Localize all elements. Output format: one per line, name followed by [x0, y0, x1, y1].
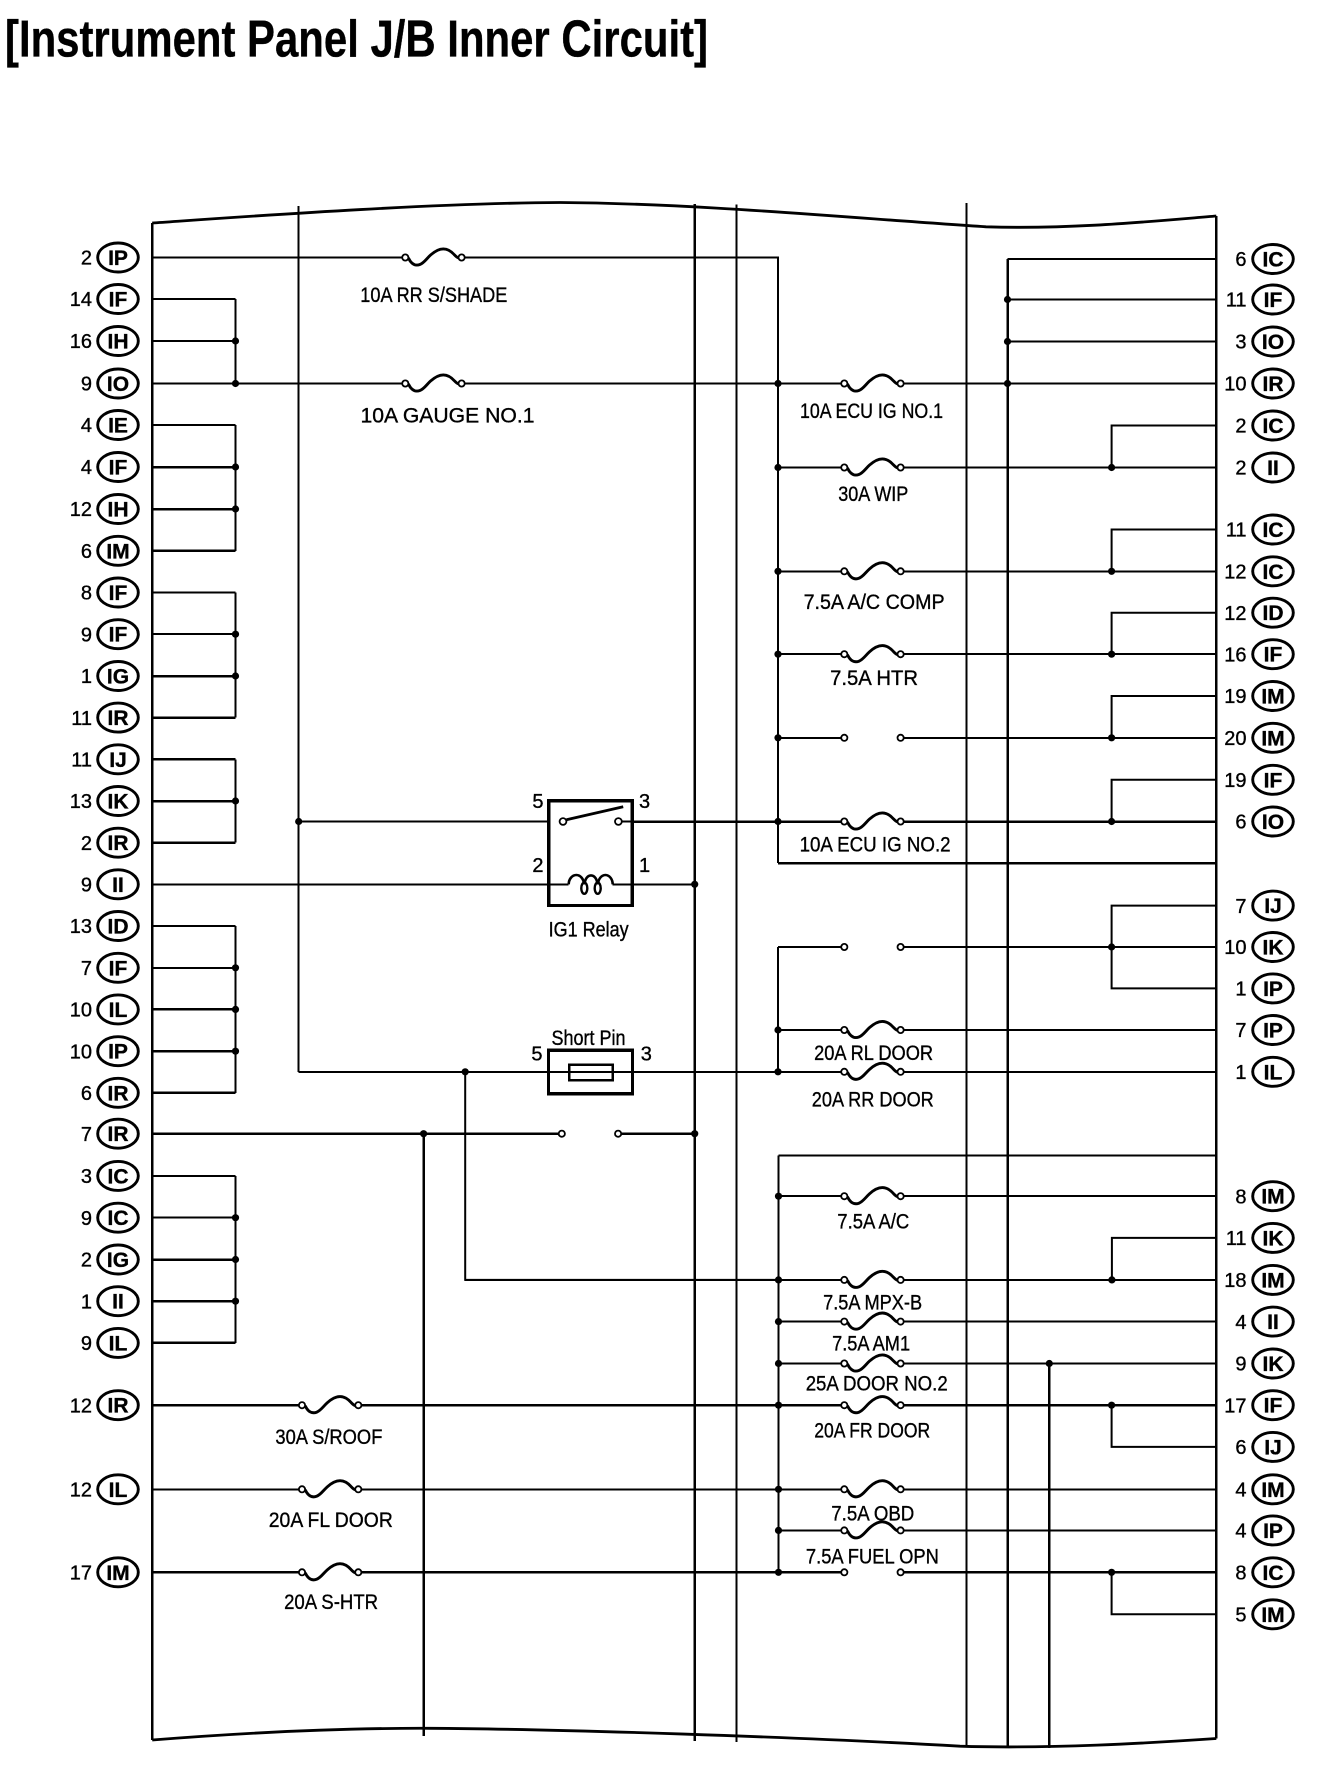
relay IG1 pin number 3 — [639, 791, 650, 813]
spare fuse slot on 10 IK row — [841, 944, 904, 950]
wire: bracket pin 19 IM — [1112, 696, 1217, 738]
svg-text:20: 20 — [1224, 728, 1246, 750]
svg-text:12: 12 — [1224, 562, 1246, 584]
svg-text:IM: IM — [106, 1562, 129, 1585]
svg-text:12: 12 — [1224, 603, 1246, 625]
bus wire V7 (x=423.6, 7 IR row to bottom border) — [420, 1130, 427, 1736]
svg-text:4: 4 — [1235, 1480, 1246, 1502]
svg-text:7: 7 — [1235, 1020, 1246, 1042]
wire: pin 10 IL stub to group bracket — [152, 1008, 235, 1011]
svg-text:ID: ID — [108, 916, 129, 939]
svg-text:19: 19 — [1224, 770, 1246, 792]
svg-text:1: 1 — [1235, 979, 1246, 1001]
svg-text:2: 2 — [81, 248, 92, 270]
svg-text:IF: IF — [109, 582, 128, 605]
connector pin 3 IO (right) — [1235, 327, 1293, 356]
svg-text:IF: IF — [1264, 1395, 1283, 1418]
fuse 10A ECU IG NO.2 — [800, 813, 951, 856]
svg-text:IP: IP — [108, 247, 128, 270]
svg-text:9: 9 — [1235, 1354, 1246, 1376]
fuse 7.5A OBD — [831, 1481, 914, 1526]
svg-text:7.5A A/C COMP: 7.5A A/C COMP — [804, 591, 945, 614]
connector pin 4 II (right) — [1235, 1307, 1293, 1336]
svg-text:IM: IM — [1261, 1186, 1284, 1209]
svg-text:13: 13 — [70, 916, 92, 938]
svg-text:IK: IK — [1263, 1227, 1284, 1250]
svg-text:7.5A FUEL OPN: 7.5A FUEL OPN — [806, 1546, 939, 1569]
wire: pin 2 IP row to 10A RR S/SHADE fuse and down-corner at x=778 — [152, 257, 779, 259]
wire: pin 3 IC stub to group bracket — [152, 1175, 235, 1177]
svg-text:7.5A MPX-B: 7.5A MPX-B — [823, 1292, 922, 1315]
wire: group bracket 14 IF / 16 IH / 9 IO — [232, 299, 239, 387]
svg-text:6: 6 — [81, 1083, 92, 1105]
junction box top border (wavy) — [152, 203, 1216, 228]
wire: bracket pin 5 IM from 8 IC row — [1112, 1572, 1217, 1614]
svg-text:10A GAUGE NO.1: 10A GAUGE NO.1 — [361, 404, 535, 427]
bus wire V6 (x=1049.3, 25A DOOR NO.2 row to bottom border) — [1046, 1360, 1053, 1748]
svg-text:20A FR DOOR: 20A FR DOOR — [814, 1420, 930, 1443]
connector pin 1 IP (right) — [1235, 974, 1293, 1003]
wire: group bracket 11 IJ / 13 IK / 2 IR — [232, 759, 239, 842]
svg-text:8: 8 — [1235, 1186, 1246, 1208]
connector pin 7 IP (right) — [1235, 1016, 1293, 1045]
wire: bracket pin 7 IJ / pin 1 IP — [1112, 906, 1217, 989]
short pin pin number 3 — [641, 1044, 652, 1066]
bus wire V3 (x=736.3, top border to bottom border) — [735, 205, 737, 1743]
connector pin 5 IM (right) — [1235, 1600, 1293, 1629]
svg-text:IF: IF — [1264, 289, 1283, 312]
fuse 7.5A HTR — [830, 646, 918, 690]
svg-text:IP: IP — [1263, 1520, 1283, 1543]
svg-text:IC: IC — [1263, 519, 1284, 542]
svg-text:12: 12 — [70, 1480, 92, 1502]
svg-text:IP: IP — [108, 1041, 128, 1064]
wire: pin 8 IF stub to group bracket — [152, 592, 235, 594]
svg-text:10: 10 — [70, 1041, 92, 1063]
wire: pin 2 IR stub to group bracket — [152, 841, 235, 844]
connector pin 8 IF (left) — [81, 578, 138, 607]
short pin box — [549, 1050, 633, 1094]
svg-text:IH: IH — [108, 331, 129, 354]
svg-text:IP: IP — [1263, 1020, 1283, 1043]
spare fuse slot on 7 IR row — [559, 1131, 622, 1137]
wire: pin 9 IF stub to group bracket — [152, 633, 235, 635]
svg-text:II: II — [1267, 1311, 1279, 1334]
connector pin 1 IG (left) — [81, 662, 138, 691]
fuse 20A FR DOOR — [814, 1397, 930, 1443]
connector pin 1 IL (right) — [1235, 1057, 1293, 1086]
relay IG1 box — [549, 801, 632, 906]
connector pin 6 IJ (right) — [1235, 1432, 1293, 1461]
wire: group bracket 3 IC / 9 IC / 2 IG / 1 II / 9 IL — [232, 1176, 239, 1343]
svg-text:IC: IC — [1263, 415, 1284, 438]
wire: relay feed drop to right border at y=863 — [778, 862, 1216, 865]
svg-text:7: 7 — [1235, 896, 1246, 918]
svg-text:8: 8 — [1235, 1563, 1246, 1585]
svg-text:5: 5 — [1235, 1605, 1246, 1627]
svg-text:5: 5 — [531, 1044, 542, 1066]
svg-text:9: 9 — [81, 624, 92, 646]
svg-text:IO: IO — [1262, 811, 1284, 834]
svg-text:IJ: IJ — [1264, 895, 1282, 918]
connector pin 11 IC (right) — [1226, 515, 1294, 544]
svg-text:ID: ID — [1263, 602, 1284, 625]
wire: group bracket 13 ID / 7 IF / 10 IL / 10 IP / 6 IR — [232, 926, 239, 1093]
svg-text:IC: IC — [1263, 1562, 1284, 1585]
svg-text:6: 6 — [81, 541, 92, 563]
svg-text:IR: IR — [108, 707, 129, 730]
wire: bracket pin 11 IC — [1112, 530, 1217, 572]
svg-text:IJ: IJ — [109, 749, 127, 772]
svg-text:2: 2 — [81, 1250, 92, 1272]
svg-text:6: 6 — [1235, 1437, 1246, 1459]
svg-text:12: 12 — [70, 499, 92, 521]
svg-text:IK: IK — [108, 791, 129, 814]
connector pin 8 IC (right) — [1235, 1558, 1293, 1587]
svg-text:30A S/ROOF: 30A S/ROOF — [275, 1426, 382, 1449]
wire: pin 11 IF row from bus V5 — [1008, 299, 1217, 301]
wire: 7.5A FUEL OPN row from bus to pin 4 IP — [779, 1529, 1217, 1531]
connector pin 2 II (right) — [1235, 453, 1293, 482]
connector pin 12 IC (right) — [1224, 557, 1293, 586]
connector pin 4 IP (right) — [1235, 1516, 1293, 1545]
svg-text:IP: IP — [1263, 978, 1283, 1001]
svg-text:[Instrument Panel J/B Inner Ci: [Instrument Panel J/B Inner Circuit] — [5, 11, 708, 69]
svg-text:6: 6 — [1235, 812, 1246, 834]
svg-text:1: 1 — [81, 666, 92, 688]
svg-text:11: 11 — [1226, 520, 1247, 542]
wire: pin 6 IM stub to group bracket — [152, 550, 235, 553]
svg-text:25A DOOR NO.2: 25A DOOR NO.2 — [806, 1372, 948, 1395]
svg-text:IM: IM — [1261, 1269, 1284, 1292]
svg-text:IR: IR — [108, 1082, 129, 1105]
connector pin 2 IG (left) — [81, 1245, 138, 1274]
spare fuse slot on 8 IC row — [841, 1569, 904, 1575]
svg-text:IK: IK — [1263, 1353, 1284, 1376]
connector pin 19 IM (right) — [1224, 682, 1293, 711]
svg-text:16: 16 — [1224, 644, 1246, 666]
connector pin 12 IH (left) — [70, 495, 139, 524]
wire: pin 13 ID stub to group bracket — [152, 925, 235, 927]
svg-text:IM: IM — [1261, 1479, 1284, 1502]
svg-text:13: 13 — [70, 791, 92, 813]
fuse 10A RR S/SHADE — [360, 249, 507, 307]
svg-text:20A RL DOOR: 20A RL DOOR — [814, 1042, 933, 1065]
svg-text:IL: IL — [109, 999, 128, 1022]
wire: 20A RL DOOR row from bus to pin 7 IP — [778, 1029, 1216, 1031]
fuse 30A WIP — [838, 459, 908, 506]
wire: relay coil pin 1 to bus V2 — [632, 883, 695, 885]
relay IG1 label — [549, 919, 629, 942]
svg-text:4: 4 — [1235, 1312, 1246, 1334]
connector pin 11 IR (left) — [71, 703, 138, 732]
wire: relay output row 10A ECU IG NO.2 to pin 6 IO with bracket to pin 19 IF — [299, 818, 1217, 825]
wire: spare slot row (7 IJ / 10 IK / 1 IP group) — [778, 943, 1216, 950]
svg-text:11: 11 — [1226, 1228, 1247, 1250]
wire: bracket pin 11 IK — [1112, 1238, 1216, 1280]
svg-text:IC: IC — [108, 1207, 129, 1230]
svg-text:Short Pin: Short Pin — [552, 1027, 626, 1050]
connector pin 18 IM (right) — [1224, 1265, 1293, 1294]
wire: group bracket 8 IF / 9 IF / 1 IG / 11 IR — [232, 593, 239, 718]
wire: pin 17 IM row through 20A S-HTR fuse and spare slot to pin 8 IC (right) — [152, 1569, 1216, 1576]
connector pin 6 IC (right) — [1235, 245, 1293, 274]
junction box bottom border (wavy) — [152, 1728, 1216, 1747]
svg-text:IG: IG — [107, 666, 129, 689]
fuse 10A GAUGE NO.1 — [361, 375, 535, 427]
svg-text:2: 2 — [81, 833, 92, 855]
svg-text:IL: IL — [1264, 1061, 1283, 1084]
connector pin 1 II (left) — [81, 1287, 138, 1316]
svg-text:11: 11 — [1226, 290, 1247, 312]
wire: pin 2 IG stub to group bracket — [152, 1258, 235, 1261]
connector pin 11 IK (right) — [1226, 1223, 1294, 1252]
spare fuse slot on 20 IM row — [841, 735, 904, 741]
connector pin 4 IF (left) — [81, 453, 138, 482]
svg-text:3: 3 — [639, 791, 650, 813]
svg-text:7.5A HTR: 7.5A HTR — [830, 667, 918, 690]
relay IG1 pin number 1 — [639, 855, 650, 877]
wire: spare slot row from bus to pin 20 IM with bracket to pin 19 IM — [778, 734, 1216, 741]
svg-text:IK: IK — [1263, 937, 1284, 960]
svg-text:7.5A OBD: 7.5A OBD — [831, 1503, 914, 1526]
svg-text:IG1 Relay: IG1 Relay — [549, 919, 629, 942]
connector pin 4 IE (left) — [81, 411, 138, 440]
fuse 20A RR DOOR — [812, 1063, 934, 1111]
fuse 20A FL DOOR — [269, 1481, 393, 1532]
bus wire V8b (x=778, spare-fuse row to 20A RR DOOR row) — [774, 947, 781, 1075]
svg-text:IC: IC — [108, 1165, 129, 1188]
connector pin 6 IM (left) — [81, 536, 138, 565]
wire: pin 9 IC stub to group bracket — [152, 1217, 235, 1219]
wire: 7.5A A/C COMP row from bus to pin 12 IC with bracket to pin 11 IC — [778, 568, 1216, 575]
junction box right border — [1215, 216, 1218, 1739]
wire: pin 4 IF stub to group bracket — [152, 466, 235, 469]
fuse 7.5A A/C COMP — [804, 563, 945, 614]
svg-text:IF: IF — [109, 624, 128, 647]
wire: pin 3 IO row from bus V5 — [1008, 341, 1217, 343]
svg-text:7.5A A/C: 7.5A A/C — [837, 1210, 909, 1233]
relay IG1 pin number 5 — [532, 791, 543, 813]
fuse 7.5A AM1 — [832, 1313, 910, 1355]
wire: group bracket 4 IE / 4 IF / 12 IH / 6 IM — [232, 425, 239, 551]
svg-text:3: 3 — [641, 1044, 652, 1066]
wire: pin 12 IR row through 30A S/ROOF and 20A FR DOOR fuses to pin 17 IF (right) — [152, 1402, 1216, 1409]
svg-text:1: 1 — [639, 855, 650, 877]
connector pin 11 IF (right) — [1226, 285, 1294, 314]
relay IG1 coil (pins 2-1) — [549, 875, 632, 894]
bus wire V2 (x=694.7, top border to bottom border) — [691, 204, 698, 1741]
connector pin 12 ID (right) — [1224, 598, 1293, 627]
connector pin 2 IR (left) — [81, 828, 138, 857]
svg-text:IR: IR — [1263, 373, 1284, 396]
svg-text:10: 10 — [1224, 374, 1246, 396]
wire: lower feed bus corner row to right border at y=1155.3 — [779, 1154, 1217, 1156]
svg-text:5: 5 — [532, 791, 543, 813]
connector pin 8 IM (right) — [1235, 1182, 1293, 1211]
fuse 25A DOOR NO.2 — [806, 1355, 948, 1395]
wire: 25A DOOR NO.2 row from bus to pin 9 IK — [779, 1363, 1217, 1365]
svg-text:19: 19 — [1224, 686, 1246, 708]
svg-text:IM: IM — [1261, 727, 1284, 750]
svg-text:II: II — [112, 1291, 124, 1314]
bus wire V8a (x=778, feed bus upper segment) — [774, 258, 781, 864]
svg-text:16: 16 — [70, 331, 92, 353]
fuse 7.5A MPX-B — [823, 1271, 922, 1314]
svg-text:7.5A AM1: 7.5A AM1 — [832, 1332, 910, 1355]
relay IG1 switch contacts (pins 5-3) — [560, 807, 633, 825]
svg-text:10: 10 — [70, 1000, 92, 1022]
svg-text:IO: IO — [1262, 331, 1284, 354]
connector pin 9 IF (left) — [81, 620, 138, 649]
relay IG1 pin number 2 — [532, 855, 543, 877]
svg-text:7: 7 — [81, 1124, 92, 1146]
bus wire V9 (x=465.2, Short Pin row down to 7.5A MPX-B row) — [462, 1068, 779, 1280]
svg-text:IJ: IJ — [1264, 1436, 1282, 1459]
svg-text:7: 7 — [81, 958, 92, 980]
connector pin 4 IM (right) — [1235, 1475, 1293, 1504]
svg-text:3: 3 — [81, 1166, 92, 1188]
wire: Short Pin row from bus V1 corner through 20A RR DOOR fuse to pin 1 IL — [299, 1071, 1217, 1073]
connector pin 6 IR (left) — [81, 1078, 138, 1107]
connector pin 17 IM (left) — [70, 1558, 139, 1587]
connector pin 9 IL (left) — [81, 1328, 138, 1357]
junction box left border — [151, 223, 154, 1740]
wire: pin 6 IC row from bus V5 corner — [1008, 258, 1217, 260]
svg-text:IF: IF — [109, 957, 128, 980]
svg-text:IM: IM — [1261, 686, 1284, 709]
wire: pin 11 IJ stub to group bracket — [152, 758, 235, 761]
svg-text:6: 6 — [1235, 249, 1246, 271]
svg-text:20A FL DOOR: 20A FL DOOR — [269, 1509, 393, 1532]
fuse 30A S/ROOF — [275, 1397, 382, 1449]
wire: pin 9 IL stub to group bracket — [152, 1342, 235, 1345]
svg-text:9: 9 — [81, 875, 92, 897]
wire: bracket pin 2 IC — [1112, 426, 1217, 468]
connector pin 19 IF (right) — [1224, 765, 1293, 794]
svg-text:IM: IM — [106, 540, 129, 563]
svg-text:18: 18 — [1224, 1270, 1246, 1292]
wire: pin 7 IF stub to group bracket — [152, 967, 235, 969]
svg-text:IH: IH — [108, 499, 129, 522]
wire: bracket pin 19 IF — [1112, 780, 1217, 822]
wire: pin 9 IO row through 10A GAUGE NO.1 fuse to pin 10 IR (right) — [152, 383, 1216, 385]
connector pin 6 IO (right) — [1235, 807, 1293, 836]
svg-text:9: 9 — [81, 1208, 92, 1230]
connector pin 12 IL (left) — [70, 1475, 139, 1504]
svg-text:IO: IO — [107, 373, 129, 396]
svg-text:9: 9 — [81, 374, 92, 396]
svg-text:IC: IC — [1263, 249, 1284, 272]
svg-text:30A WIP: 30A WIP — [838, 483, 908, 506]
connector pin 12 IR (left) — [70, 1391, 139, 1420]
connector pin 13 ID (left) — [70, 912, 139, 941]
wire: pin 1 IG stub to group bracket — [152, 675, 235, 678]
connector pin 9 IC (left) — [81, 1203, 138, 1232]
svg-text:II: II — [112, 874, 124, 897]
svg-text:4: 4 — [81, 415, 92, 437]
bus wire V1 (x=298.7, top border to Short Pin row) — [295, 206, 302, 1072]
connector pin 16 IH (left) — [70, 327, 139, 356]
svg-text:2: 2 — [1235, 458, 1246, 480]
svg-text:10: 10 — [1224, 937, 1246, 959]
connector pin 7 IJ (right) — [1235, 891, 1293, 920]
svg-text:10A ECU IG NO.2: 10A ECU IG NO.2 — [800, 833, 951, 856]
connector pin 3 IC (left) — [81, 1161, 138, 1190]
svg-text:3: 3 — [1235, 332, 1246, 354]
wire: bracket pin 12 ID — [1112, 613, 1217, 655]
connector pin 2 IP (left) — [81, 243, 138, 272]
svg-text:IR: IR — [108, 1123, 129, 1146]
connector pin 7 IF (left) — [81, 953, 138, 982]
svg-text:IL: IL — [109, 1332, 128, 1355]
svg-text:4: 4 — [81, 457, 92, 479]
connector pin 9 II (left) — [81, 870, 138, 899]
wire: 30A WIP row from bus to pin 2 II with bracket to pin 2 IC — [778, 464, 1216, 471]
svg-text:IR: IR — [108, 1395, 129, 1418]
fuse 20A S-HTR — [284, 1564, 378, 1614]
connector pin 10 IP (left) — [70, 1037, 139, 1066]
svg-text:IM: IM — [1261, 1604, 1284, 1627]
connector pin 20 IM (right) — [1224, 723, 1293, 752]
bus wire V4 (x=966.3, top border to bottom border) — [965, 203, 967, 1746]
wire: pin 12 IL row through 20A FL DOOR and 7.5A OBD fuses to pin 4 IM (right) — [152, 1488, 1216, 1490]
connector pin 14 IF (left) — [70, 285, 139, 314]
wire: pin 7 IR row with spare fuse slot to bus V2 — [152, 1132, 695, 1135]
fuse 10A ECU IG NO.1 — [800, 375, 943, 423]
svg-text:11: 11 — [71, 750, 92, 772]
svg-text:IE: IE — [108, 415, 128, 438]
wire: pin 10 IP stub to group bracket — [152, 1050, 235, 1053]
svg-text:1: 1 — [81, 1291, 92, 1313]
connector pin 13 IK (left) — [70, 787, 139, 816]
svg-text:IL: IL — [109, 1479, 128, 1502]
wire: pin 9 II row to IG1 relay coil pin 2 — [152, 883, 549, 885]
fuse 7.5A FUEL OPN — [806, 1522, 939, 1569]
wire: 7.5A AM1 row from bus to pin 4 II — [779, 1321, 1217, 1323]
svg-text:10A RR S/SHADE: 10A RR S/SHADE — [360, 284, 507, 307]
svg-text:IG: IG — [107, 1249, 129, 1272]
svg-text:IF: IF — [109, 457, 128, 480]
wire: pin 16 IH stub to group bracket — [152, 340, 235, 342]
svg-text:17: 17 — [1224, 1395, 1246, 1417]
svg-text:20A S-HTR: 20A S-HTR — [284, 1591, 378, 1614]
svg-text:IF: IF — [1264, 769, 1283, 792]
fuse 20A RL DOOR — [814, 1021, 933, 1065]
svg-text:10A ECU IG NO.1: 10A ECU IG NO.1 — [800, 400, 943, 423]
wire: pin 4 IE stub to group bracket — [152, 424, 235, 426]
connector pin 9 IO (left) — [81, 369, 138, 398]
short pin pin number 5 — [531, 1044, 542, 1066]
svg-text:4: 4 — [1235, 1521, 1246, 1543]
connector pin 11 IJ (left) — [71, 745, 138, 774]
svg-text:14: 14 — [70, 289, 92, 311]
svg-text:IF: IF — [109, 289, 128, 312]
wire: bracket pin 6 IJ from 17 IF row — [1112, 1405, 1217, 1447]
bus wire V8c (x=778.5, lower feed bus) — [775, 1155, 782, 1576]
connector pin 7 IR (left) — [81, 1119, 138, 1148]
wire: pin 13 IK stub to group bracket — [152, 800, 235, 803]
svg-text:12: 12 — [70, 1395, 92, 1417]
connector pin 17 IF (right) — [1224, 1391, 1293, 1420]
svg-text:9: 9 — [81, 1333, 92, 1355]
short pin label — [552, 1027, 626, 1050]
svg-text:17: 17 — [70, 1563, 92, 1585]
wire: 7.5A MPX-B row to pin 18 IM with bracket to pin 11 IK — [465, 1276, 1216, 1283]
title: [Instrument Panel J/B Inner Circuit] — [5, 11, 708, 69]
fuse 7.5A A/C — [837, 1188, 909, 1234]
bus wire V5 (x=1007.5, pin 6 IC row to bottom border) — [1004, 259, 1011, 1747]
